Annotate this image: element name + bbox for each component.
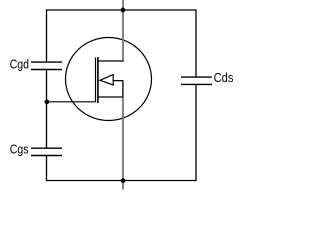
- capacitor Cgd: [31, 62, 62, 69]
- wire: left vertical lower segment (Cgs bottom plate to bottom rail): [46, 156, 48, 182]
- node: source junction on bottom rail: [121, 178, 126, 183]
- capacitor Cgs: [31, 148, 62, 155]
- transistor Q1 body circle: [66, 38, 152, 121]
- wire: left vertical upper segment (top rail to Cgd top plate): [46, 9, 48, 62]
- node: gate junction on left rail: [45, 100, 50, 105]
- transistor Q1 gate bar: [95, 58, 97, 102]
- wire: body stub to source connection: [114, 81, 123, 97]
- svg-text:Cgs: Cgs: [10, 142, 29, 157]
- wire: bottom rail: [47, 180, 197, 182]
- wire: top rail from gate branch to drain-side branch: [47, 9, 197, 11]
- wire: gate lead from gate node to gate bar: [47, 101, 97, 103]
- wire: right vertical lower segment (Cds bottom plate to bottom rail): [195, 84, 197, 181]
- wire: drain stub: [98, 60, 124, 62]
- wire: source stub: [98, 96, 123, 98]
- wire: right vertical upper segment (top rail to Cds top plate): [195, 9, 197, 77]
- wire: source terminal vertical (source stub through bottom junction to below): [122, 98, 124, 190]
- transistor Q1 body arrow: [100, 75, 113, 85]
- capacitor Cds: [181, 77, 212, 84]
- svg-text:Cgd: Cgd: [10, 57, 29, 72]
- transistor Q1 channel bar: [97, 57, 99, 103]
- wire: left vertical middle segment (Cgd bottom plate through gate node to Cgs top plate): [46, 70, 48, 149]
- wire: drain terminal vertical (top edge through top junction to drain stub): [122, 0, 124, 61]
- svg-text:Cds: Cds: [214, 70, 234, 85]
- node: drain junction on top rail: [121, 8, 126, 13]
